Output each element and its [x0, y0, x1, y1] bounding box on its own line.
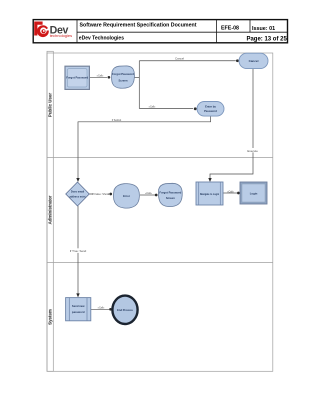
svg-text:Enter by: Enter by — [205, 104, 216, 108]
svg-text:Login: Login — [250, 191, 258, 195]
svg-text:Software Requirement Specifica: Software Requirement Specification Docum… — [80, 22, 197, 28]
svg-text:Password: Password — [204, 109, 217, 113]
svg-text:Screen: Screen — [166, 196, 175, 200]
svg-text:technologies: technologies — [50, 33, 72, 38]
svg-text:System: System — [48, 309, 53, 325]
svg-text:password: password — [72, 310, 85, 314]
svg-text:«Call»: «Call» — [145, 192, 152, 195]
svg-text:Page: 13 of 25: Page: 13 of 25 — [246, 36, 287, 42]
svg-text:Public User: Public User — [48, 93, 53, 117]
svg-text:End Process: End Process — [117, 308, 133, 312]
svg-text:Forgot Password: Forgot Password — [66, 75, 88, 79]
svg-text:«Call»: «Call» — [98, 306, 105, 309]
svg-text:Navigate to Login: Navigate to Login — [200, 193, 220, 196]
svg-text:Execute: Execute — [247, 149, 258, 153]
svg-text:Screen: Screen — [119, 79, 128, 83]
svg-text:If Submit: If Submit — [112, 119, 122, 122]
svg-text:Forgot Password: Forgot Password — [159, 190, 181, 194]
svg-text:Forgot Password: Forgot Password — [112, 72, 134, 76]
svg-text:Administrator: Administrator — [48, 195, 53, 224]
svg-text:Cancel: Cancel — [175, 56, 184, 60]
svg-text:Send new: Send new — [72, 304, 85, 308]
svg-text:Issue: 01: Issue: 01 — [252, 26, 275, 32]
svg-text:«Call»: «Call» — [227, 190, 234, 193]
svg-text:Does email: Does email — [71, 191, 85, 194]
svg-text:«Call»: «Call» — [149, 106, 156, 109]
svg-text:EFE-08: EFE-08 — [221, 26, 239, 32]
svg-text:eDev Technologies: eDev Technologies — [79, 36, 124, 42]
svg-text:If False: Show: If False: Show — [92, 192, 109, 196]
svg-text:Error: Error — [123, 194, 131, 198]
svg-text:Cancel: Cancel — [249, 59, 259, 63]
svg-text:address exist: address exist — [70, 196, 86, 199]
svg-text:«Call»: «Call» — [97, 74, 104, 77]
svg-text:If True: Send: If True: Send — [70, 249, 87, 253]
